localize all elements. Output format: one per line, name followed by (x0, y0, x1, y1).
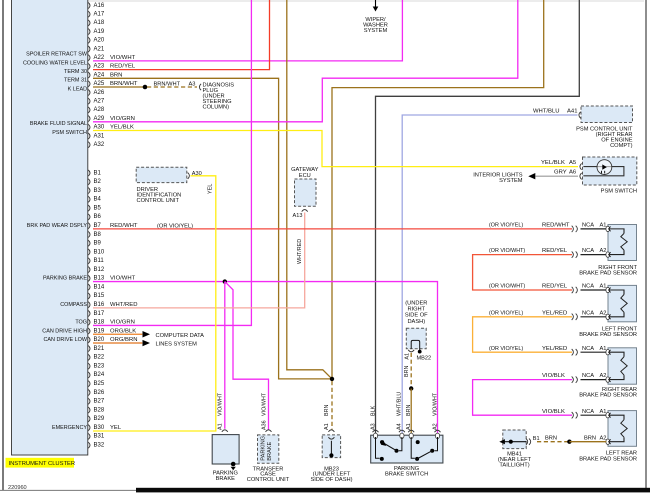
svg-text:YEL: YEL (110, 425, 122, 431)
svg-text:B29: B29 (94, 416, 105, 422)
svg-text:SIDE OF: SIDE OF (405, 313, 428, 319)
svg-text:A28: A28 (94, 107, 105, 113)
svg-text:VIO/GRN: VIO/GRN (110, 320, 135, 326)
svg-text:LINES SYSTEM: LINES SYSTEM (156, 342, 198, 348)
svg-text:B11: B11 (94, 258, 105, 264)
svg-text:A21: A21 (94, 46, 105, 52)
svg-text:BRAKE SWITCH: BRAKE SWITCH (385, 472, 428, 478)
svg-text:BRAKE PAD SENSOR: BRAKE PAD SENSOR (579, 456, 637, 462)
svg-text:BRN/WHT: BRN/WHT (110, 81, 138, 87)
svg-text:A30: A30 (192, 171, 202, 177)
svg-text:WHT/RED: WHT/RED (110, 302, 138, 308)
svg-text:EMERGENCY: EMERGENCY (52, 425, 87, 431)
svg-text:CAN DRIVE HIGH: CAN DRIVE HIGH (42, 328, 87, 334)
svg-text:ORG/BLK: ORG/BLK (110, 328, 136, 334)
svg-text:(OR VIO/YEL): (OR VIO/YEL) (489, 346, 523, 352)
svg-text:RED/YEL: RED/YEL (542, 284, 568, 290)
svg-text:B17: B17 (94, 311, 105, 317)
svg-text:BRAKE PAD SENSOR: BRAKE PAD SENSOR (579, 270, 637, 276)
svg-text:A22: A22 (94, 55, 105, 61)
svg-text:SPOILER RETRACT SW: SPOILER RETRACT SW (26, 52, 88, 58)
svg-text:BRN: BRN (584, 435, 596, 441)
svg-text:RED/YEL: RED/YEL (110, 64, 136, 70)
svg-text:CAN DRIVE LOW: CAN DRIVE LOW (43, 337, 87, 343)
svg-text:B2: B2 (94, 179, 102, 185)
svg-text:BRN: BRN (406, 405, 412, 416)
svg-text:BLK: BLK (370, 405, 376, 416)
svg-text:NCA: NCA (582, 346, 594, 352)
svg-text:NCA: NCA (582, 222, 594, 228)
svg-text:A2: A2 (600, 310, 607, 316)
svg-text:NCA: NCA (582, 248, 594, 254)
svg-text:(OR VIO/YEL): (OR VIO/YEL) (489, 222, 523, 228)
svg-text:PSM SWITCH: PSM SWITCH (52, 130, 87, 136)
svg-text:(OR VIO/YEL): (OR VIO/YEL) (489, 310, 523, 316)
svg-text:B32: B32 (94, 442, 105, 448)
svg-text:VIO/WHT: VIO/WHT (432, 392, 438, 416)
svg-text:B6: B6 (94, 214, 102, 220)
svg-text:B8: B8 (94, 232, 102, 238)
svg-text:B4: B4 (94, 197, 102, 203)
svg-text:A3: A3 (189, 81, 196, 87)
svg-text:VIO/BLK: VIO/BLK (542, 409, 565, 415)
svg-text:A1: A1 (600, 284, 607, 290)
svg-text:B10: B10 (94, 249, 105, 255)
svg-text:A29: A29 (94, 116, 105, 122)
svg-text:B15: B15 (94, 293, 105, 299)
svg-text:RED/WHT: RED/WHT (542, 222, 570, 228)
svg-text:B31: B31 (94, 434, 105, 440)
svg-text:B16: B16 (94, 302, 105, 308)
svg-text:B26: B26 (94, 390, 105, 396)
svg-text:RED/WHT: RED/WHT (110, 223, 138, 229)
svg-text:BRN: BRN (110, 72, 122, 78)
svg-text:B12: B12 (94, 267, 105, 273)
svg-text:B21: B21 (94, 346, 105, 352)
svg-text:TERM 30: TERM 30 (64, 69, 87, 75)
svg-text:CONTROL UNIT: CONTROL UNIT (137, 198, 180, 204)
svg-text:A2: A2 (432, 423, 438, 430)
svg-text:MB22: MB22 (417, 356, 432, 362)
svg-text:A1: A1 (600, 222, 607, 228)
svg-text:RED/YEL: RED/YEL (542, 248, 568, 254)
svg-text:TAILLIGHT): TAILLIGHT) (499, 463, 529, 469)
svg-text:COMPUTER DATA: COMPUTER DATA (156, 333, 205, 339)
svg-text:COMPT): COMPT) (610, 143, 633, 149)
svg-text:B24: B24 (94, 372, 105, 378)
svg-text:SIDE OF DASH): SIDE OF DASH) (310, 477, 352, 483)
svg-text:YEL/BLK: YEL/BLK (110, 125, 134, 131)
svg-text:B5: B5 (94, 205, 102, 211)
svg-text:A27: A27 (94, 99, 105, 105)
svg-text:B1: B1 (533, 436, 540, 442)
svg-text:BRAKE PAD SENSOR: BRAKE PAD SENSOR (579, 332, 637, 338)
svg-text:WHT/BLU: WHT/BLU (533, 109, 560, 115)
svg-text:A1: A1 (218, 423, 224, 430)
svg-text:A6: A6 (569, 170, 577, 176)
svg-text:A31: A31 (94, 133, 105, 139)
svg-text:B9: B9 (94, 241, 102, 247)
svg-text:NCA: NCA (582, 284, 594, 290)
svg-text:GRY: GRY (554, 170, 567, 176)
svg-text:DASH): DASH) (407, 319, 425, 325)
svg-text:PARKING: PARKING (261, 436, 267, 461)
svg-text:A2: A2 (600, 435, 607, 441)
svg-text:SYSTEM: SYSTEM (364, 28, 388, 34)
svg-text:B14: B14 (94, 284, 105, 290)
svg-text:RIGHT: RIGHT (407, 307, 425, 313)
svg-text:BRN: BRN (545, 435, 557, 441)
svg-text:BRN: BRN (324, 405, 330, 416)
svg-text:A32: A32 (94, 142, 105, 148)
svg-text:ORG/BRN: ORG/BRN (110, 337, 138, 343)
svg-text:A3: A3 (370, 423, 376, 430)
svg-text:B19: B19 (94, 328, 105, 334)
svg-text:PARKING BRAKE: PARKING BRAKE (43, 276, 87, 282)
svg-text:A26: A26 (94, 90, 105, 96)
svg-text:A16: A16 (94, 3, 105, 9)
svg-text:A2: A2 (600, 373, 607, 379)
svg-text:B30: B30 (94, 425, 105, 431)
svg-text:BRK PAD WEAR DSPLY: BRK PAD WEAR DSPLY (27, 223, 88, 229)
svg-text:K LEAD: K LEAD (68, 86, 87, 92)
svg-text:B27: B27 (94, 399, 105, 405)
svg-text:NCA: NCA (582, 310, 594, 316)
svg-text:A5: A5 (569, 160, 577, 166)
svg-text:B20: B20 (94, 337, 105, 343)
svg-text:A17: A17 (94, 12, 105, 18)
svg-text:B3: B3 (94, 188, 102, 194)
svg-text:A1: A1 (324, 423, 330, 430)
svg-text:A1: A1 (404, 353, 410, 360)
svg-text:A30: A30 (94, 125, 105, 131)
svg-text:B13: B13 (94, 276, 105, 282)
svg-text:(OR VIO/WHT): (OR VIO/WHT) (489, 248, 525, 254)
svg-text:BRAKE PAD SENSOR: BRAKE PAD SENSOR (579, 393, 637, 399)
svg-text:VIO/GRN: VIO/GRN (110, 116, 135, 122)
svg-text:YEL/BLK: YEL/BLK (541, 160, 565, 166)
svg-text:NCA: NCA (582, 409, 594, 415)
svg-text:COOLING WATER LEVEL: COOLING WATER LEVEL (23, 60, 87, 66)
svg-text:YEL/RED: YEL/RED (542, 310, 567, 316)
svg-text:YEL: YEL (208, 184, 214, 194)
svg-text:INSTRUMENT CLUSTER: INSTRUMENT CLUSTER (9, 461, 76, 467)
svg-text:A13: A13 (293, 213, 303, 219)
svg-text:VIO/WHT: VIO/WHT (218, 392, 224, 416)
svg-text:COMPASS: COMPASS (60, 302, 87, 308)
svg-text:WHT/RED: WHT/RED (297, 239, 303, 264)
svg-text:VIO/WHT: VIO/WHT (110, 55, 136, 61)
svg-text:B7: B7 (94, 223, 102, 229)
svg-text:BRAKE FLUID SIGNAL: BRAKE FLUID SIGNAL (30, 121, 87, 127)
svg-text:B18: B18 (94, 320, 105, 326)
svg-text:B22: B22 (94, 355, 105, 361)
svg-text:VIO/WHT: VIO/WHT (261, 392, 267, 416)
svg-text:VIO/WHT: VIO/WHT (110, 276, 136, 282)
svg-text:A1: A1 (600, 409, 607, 415)
svg-text:(OR VIO/WHT): (OR VIO/WHT) (489, 284, 525, 290)
svg-text:A24: A24 (94, 72, 105, 78)
svg-text:ECU: ECU (299, 173, 311, 179)
svg-text:SYSTEM: SYSTEM (499, 178, 523, 184)
svg-text:A4: A4 (397, 423, 403, 430)
svg-text:A1: A1 (406, 423, 412, 430)
svg-text:PSM SWITCH: PSM SWITCH (601, 188, 637, 194)
svg-text:A18: A18 (94, 20, 105, 26)
svg-text:(UNDER: (UNDER (405, 301, 427, 307)
svg-text:220960: 220960 (8, 485, 27, 491)
svg-text:WHT/BLU: WHT/BLU (397, 392, 403, 416)
svg-text:A36: A36 (261, 420, 267, 430)
svg-text:NCA: NCA (582, 373, 594, 379)
svg-text:B25: B25 (94, 381, 105, 387)
svg-text:B1: B1 (94, 170, 102, 176)
svg-text:A20: A20 (94, 38, 105, 44)
svg-text:BRAKE: BRAKE (216, 476, 235, 482)
svg-text:A2: A2 (600, 248, 607, 254)
svg-text:A41: A41 (567, 109, 577, 115)
svg-text:BRN: BRN (404, 366, 410, 377)
svg-text:A23: A23 (94, 64, 105, 70)
svg-text:YEL/RED: YEL/RED (542, 346, 567, 352)
svg-text:B23: B23 (94, 363, 105, 369)
svg-text:COLUMN): COLUMN) (203, 104, 230, 110)
svg-text:TERM 31: TERM 31 (64, 78, 87, 84)
svg-text:A25: A25 (94, 81, 105, 87)
svg-text:BRAKE: BRAKE (267, 441, 273, 460)
svg-text:A1: A1 (600, 346, 607, 352)
svg-text:B28: B28 (94, 407, 105, 413)
svg-text:CONTROL UNIT: CONTROL UNIT (247, 477, 290, 483)
svg-text:VIO/BLK: VIO/BLK (542, 373, 565, 379)
svg-text:BRN/WHT: BRN/WHT (154, 81, 181, 87)
svg-text:A19: A19 (94, 29, 105, 35)
svg-text:TOG: TOG (75, 320, 87, 326)
